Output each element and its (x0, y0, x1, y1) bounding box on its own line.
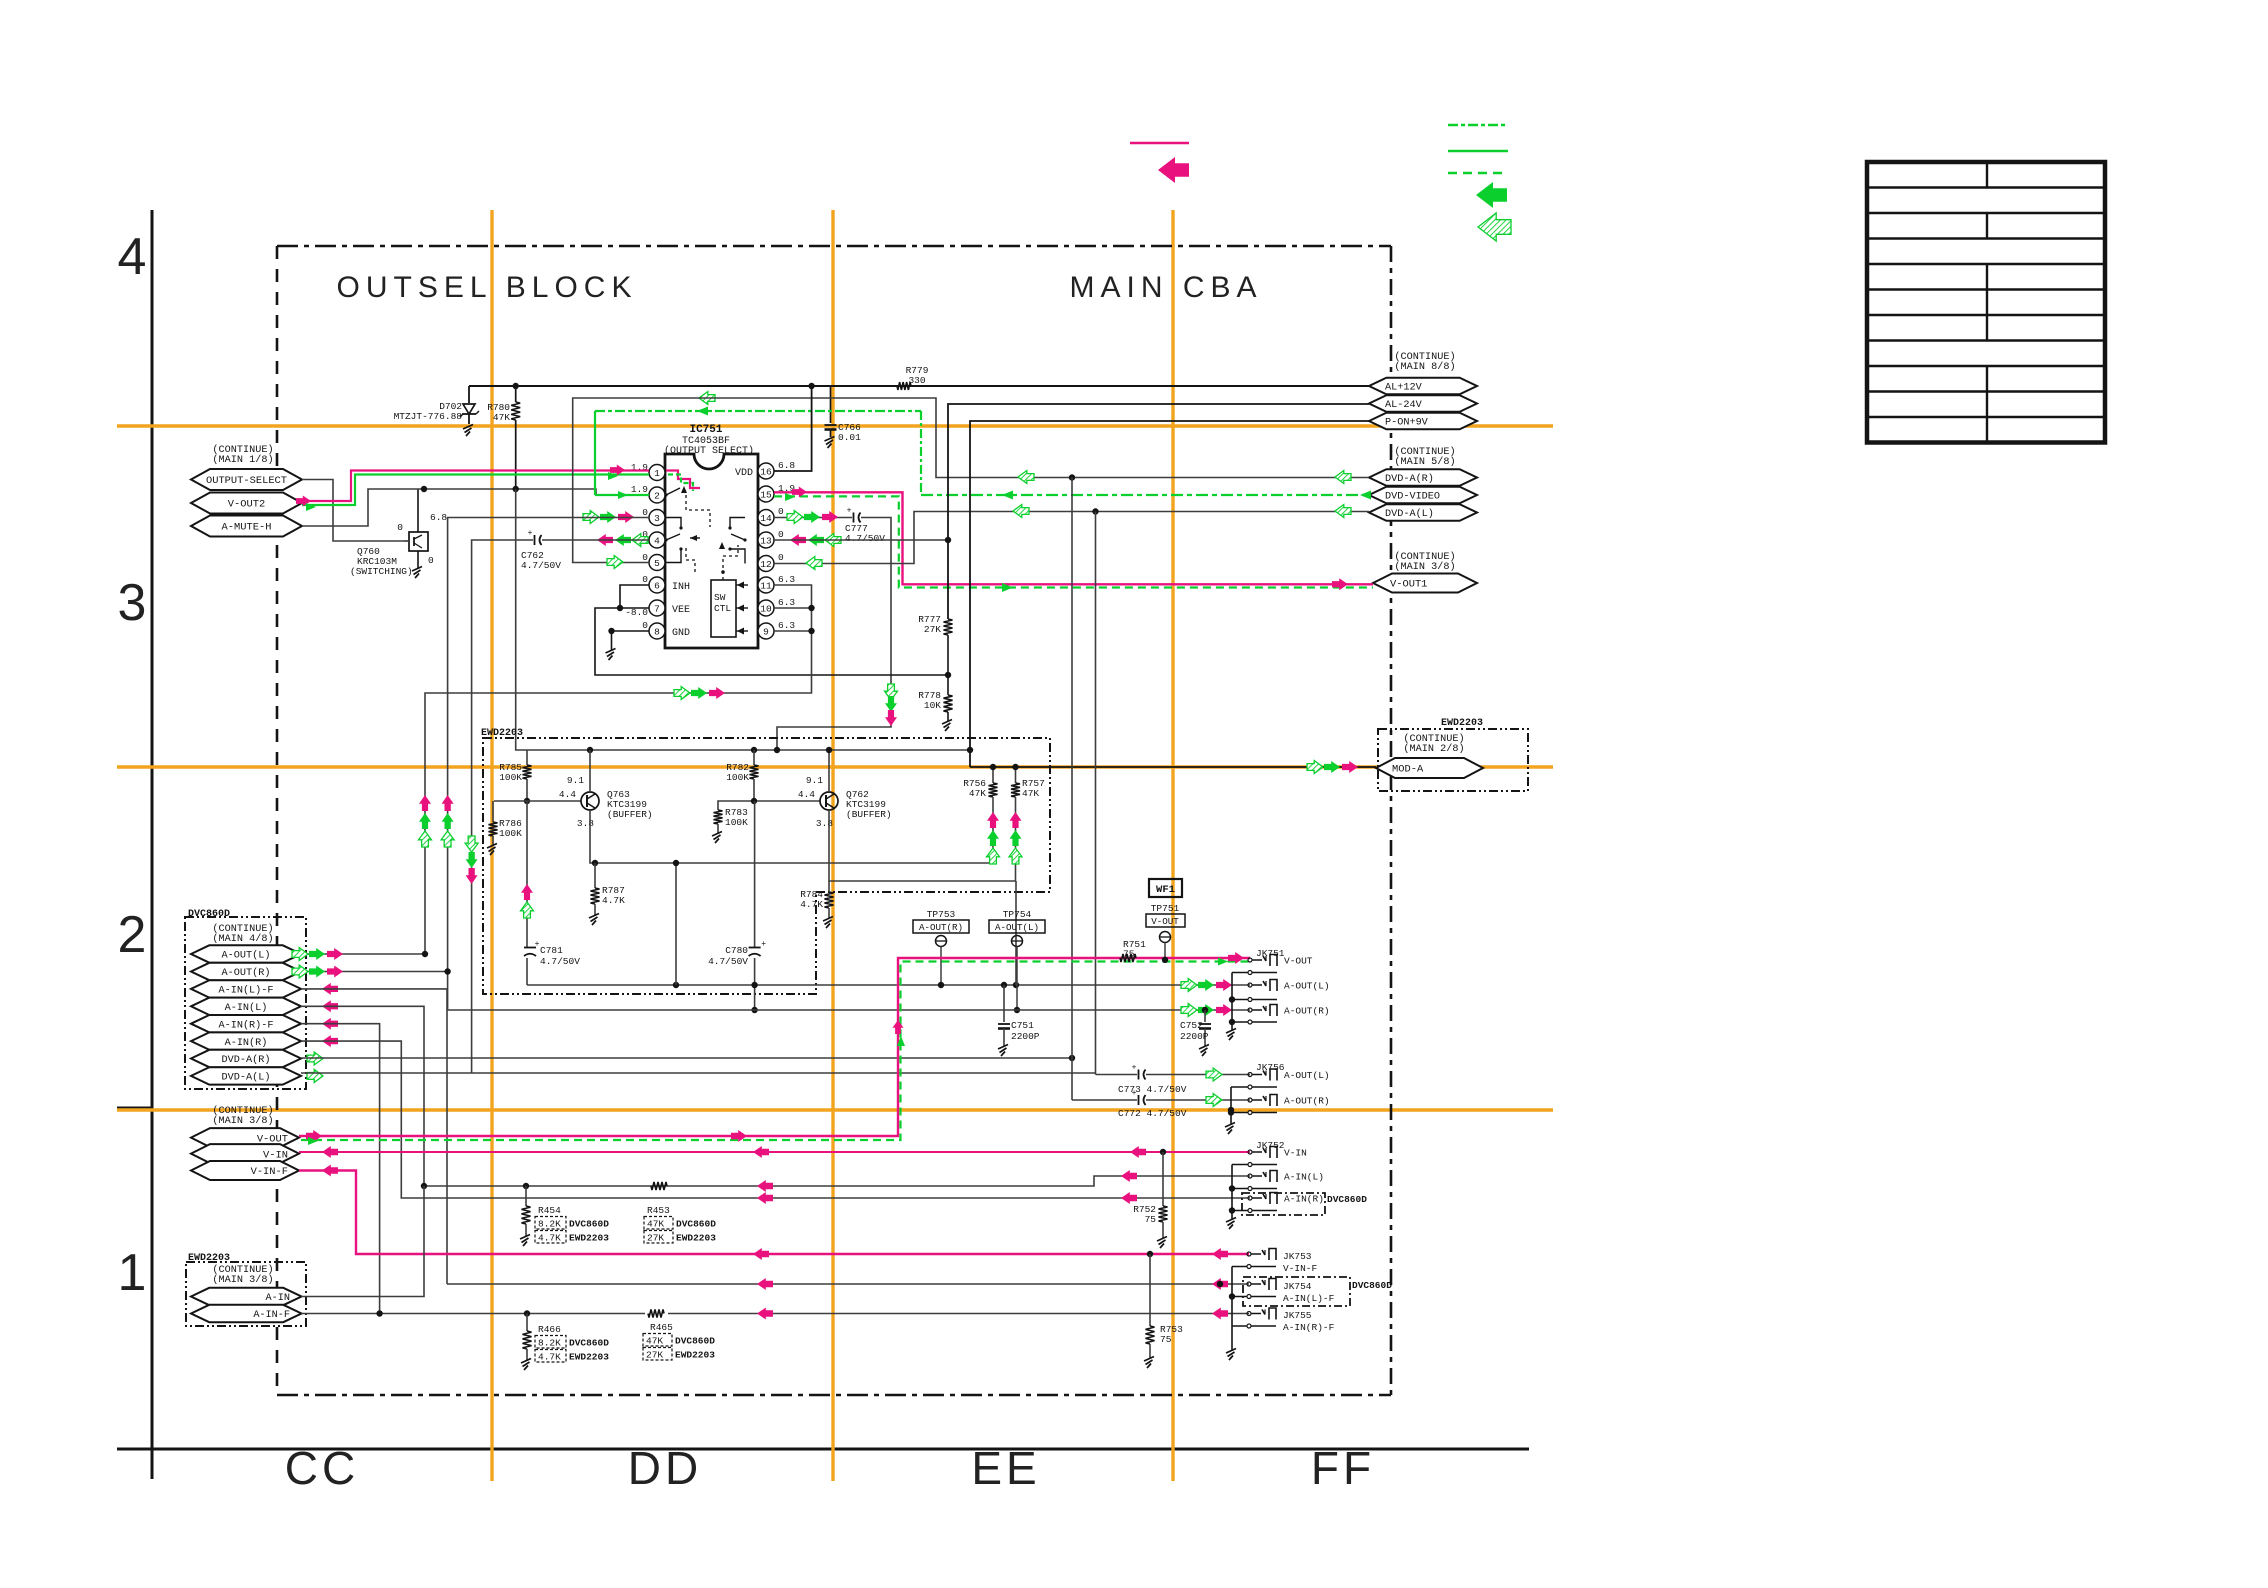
JK752 ground rail (1231, 1165, 1233, 1220)
svg-text:47K: 47K (969, 788, 986, 799)
wire V-OUT pink (299, 958, 1250, 1136)
svg-text:C781: C781 (540, 945, 563, 956)
svg-text:MAIN CBA: MAIN CBA (1069, 271, 1262, 304)
svg-text:47K: 47K (1022, 788, 1039, 799)
node Q760 collector on net (421, 486, 427, 492)
connector hexagon AL-24V (1369, 395, 1477, 412)
svg-text:+: + (761, 940, 766, 949)
svg-text:MTZJT-776.88: MTZJT-776.88 (394, 411, 463, 422)
wire MOD-A from buffers (970, 766, 1376, 768)
svg-text:27K: 27K (924, 624, 941, 635)
resistor R783 100K (714, 810, 723, 824)
connector hexagon OUTPUT-SELECT (191, 469, 302, 490)
svg-text:(MAIN 1/8): (MAIN 1/8) (212, 454, 273, 466)
wire JK756 A-OUT(R) line (1072, 1099, 1137, 1101)
green arrow on V-OUT1 green line (1002, 583, 1013, 592)
svg-text:(MAIN 5/8): (MAIN 5/8) (1394, 456, 1455, 468)
svg-text:(MAIN 3/8): (MAIN 3/8) (1394, 561, 1455, 573)
ground below R786 (487, 844, 497, 849)
svg-text:6: 6 (654, 580, 660, 591)
resistor R453 inline (651, 1182, 667, 1190)
svg-text:330: 330 (908, 375, 925, 386)
pink arrow after pin15 (792, 487, 807, 498)
TP754 test point circle (1012, 936, 1023, 947)
wire Q762 collector (828, 750, 830, 792)
IC751 pin 2 circle (649, 487, 665, 503)
svg-text:2: 2 (118, 906, 147, 964)
IC751 pin 6 circle (649, 577, 665, 593)
green arrowhead on dash-dot top line (697, 407, 708, 416)
wire pin15 pink to corner (774, 492, 1373, 584)
svg-text:8.2K: 8.2K (538, 1338, 561, 1349)
node rail x676 (673, 982, 679, 988)
svg-text:+: + (1132, 1064, 1137, 1073)
arrows before MOD-A hexagon (1342, 761, 1358, 773)
svg-text:TP751: TP751 (1151, 903, 1180, 914)
TP751 test point circle (1160, 932, 1171, 943)
wire P-ON+9V (970, 421, 1369, 767)
OUTSEL BLOCK border top edge (277, 245, 1391, 248)
svg-text:V-IN: V-IN (263, 1149, 288, 1161)
svg-text:A-IN(R)-F: A-IN(R)-F (218, 1019, 273, 1031)
DVC860D dashed box around JK752 A-IN(R) (1242, 1193, 1325, 1215)
node DVD-A(R) / JK756 riser (1069, 474, 1075, 480)
connector hexagon A-IN-F (191, 1305, 302, 1322)
wire pin11 to riser (425, 585, 812, 954)
node rail R782 (751, 747, 757, 753)
svg-text:9: 9 (763, 626, 769, 637)
green arrow before pin1 (608, 472, 618, 480)
svg-text:TP754: TP754 (1003, 909, 1032, 920)
wire pin5 loop over IC to DVD-A(R) (573, 398, 1369, 563)
legend green dash-dot line (1448, 124, 1508, 127)
wire AL-24V (948, 404, 1369, 619)
jack JK751 V-OUT (1248, 958, 1252, 962)
diode D702 with wire (468, 386, 470, 403)
wire A-MUTE-H to pullup net (302, 489, 424, 526)
svg-text:+: + (847, 507, 852, 516)
node R757 top (1012, 764, 1018, 770)
arrows at A-OUT(L) hexagon (327, 948, 343, 960)
green hollow arrow at DVD-A(R) hexagon (307, 1052, 323, 1065)
jack JK754 ground pin (1247, 1295, 1251, 1299)
pink arrow at A-IN(L) hexagon (322, 1000, 338, 1012)
svg-text:(BUFFER): (BUFFER) (846, 809, 892, 820)
wire pin3 riser to A-OUT(R) line (448, 518, 649, 972)
connector hexagon A-IN(R) (left) (191, 1032, 301, 1049)
pink arrows on A-IN(L)-F line (757, 1278, 773, 1290)
green arrowhead on DVD-VIDEO line left (1002, 491, 1013, 500)
svg-text:75: 75 (1145, 1214, 1157, 1225)
op-amp U1 IC751 body (665, 454, 758, 648)
svg-text:V-IN-F: V-IN-F (1283, 1263, 1318, 1274)
green arrowhead at DVD-VIDEO hexagon (1360, 491, 1371, 500)
wire pin15 green dashed to corner (774, 496, 1373, 587)
svg-text:DVC860D: DVC860D (1327, 1194, 1367, 1205)
svg-text:27K: 27K (646, 1350, 663, 1361)
pink arrow mid V-OUT line (731, 1130, 747, 1142)
svg-text:0: 0 (642, 507, 648, 518)
jack JK752 A-IN(R) ground pin (1248, 1209, 1252, 1213)
resistor R466 8.2K vertical (526, 1314, 528, 1332)
green hatched arrow DVD-A(L) at hexagon (1335, 505, 1351, 518)
pink arrow before pin1 (610, 465, 625, 476)
connector hexagon MOD-A (1376, 758, 1483, 778)
green hatched arrow DVD-A(R) at hexagon (1335, 471, 1351, 484)
wire A-IN riser (302, 1186, 425, 1297)
svg-text:A-OUT(R): A-OUT(R) (919, 922, 963, 933)
legend green hatched arrow (1478, 213, 1511, 241)
wire A-OUT(R) to JK751 (301, 972, 1250, 1011)
transistor Q1 Q763 KTC3199 (581, 792, 599, 810)
green hollow arrow at DVD-A(L) hexagon (307, 1069, 323, 1082)
wire A-IN(L) line (424, 1176, 1250, 1186)
connector hexagon A-IN (191, 1288, 302, 1305)
svg-text:A-IN(L)-F: A-IN(L)-F (218, 985, 273, 997)
ground JK752 (1226, 1218, 1236, 1223)
connector hexagon V-OUT (left) (191, 1128, 299, 1147)
green arrow at V-OUT hexagon (308, 1137, 318, 1145)
arrows on pin13 wire (790, 534, 806, 546)
JK756 ground rail (1230, 1087, 1232, 1124)
arrows on pin4 wire (597, 534, 613, 546)
pink arrow at A-IN(R) hexagon (322, 1035, 338, 1047)
capacitor C781 4.7/50V (526, 801, 528, 947)
jack JK752 V-IN (1248, 1150, 1252, 1154)
wire pin8 GND (612, 630, 650, 632)
wire OUTPUT-SELECT to Q760 base (302, 480, 409, 542)
IC751 SW CTL box (711, 580, 736, 637)
connector hexagon AL+12V (1369, 378, 1477, 395)
jack JK751 A-OUT(L) (1248, 983, 1252, 987)
svg-text:4.7/50V: 4.7/50V (521, 560, 561, 571)
pink arrow on V-OUT1 line (1332, 578, 1348, 590)
orange grid horizontal line 1 (117, 424, 1553, 427)
svg-text:A-IN(L)-F: A-IN(L)-F (1283, 1293, 1335, 1304)
resistor R787 4.7K (592, 860, 598, 866)
EWD bottom rail / JK751 A-OUT(L) line (527, 984, 1250, 986)
svg-text:A-OUT(L): A-OUT(L) (995, 922, 1039, 933)
resistor R785 100K (526, 750, 528, 765)
wire pin6 INH (620, 585, 649, 608)
svg-text:47K: 47K (493, 412, 510, 423)
svg-text:1: 1 (654, 468, 660, 479)
pink arrow at V-OUT hexagon (306, 1130, 322, 1142)
ground below R752 (1157, 1237, 1167, 1242)
connector hexagon P-ON+9V (1369, 413, 1477, 430)
svg-text:0: 0 (428, 555, 434, 566)
svg-text:V-OUT: V-OUT (1151, 916, 1179, 927)
wire V-OUT2 green to pin1 (302, 475, 649, 506)
svg-text:(MAIN 8/8): (MAIN 8/8) (1394, 361, 1455, 373)
svg-text:0: 0 (642, 552, 648, 563)
wire A-IN(R)-F riser (301, 1024, 380, 1314)
JK751 ground rail (1231, 973, 1233, 1031)
wire base node Q763 (494, 800, 581, 802)
arrows under R757 (1010, 812, 1022, 828)
wire pin13 to AL-24V riser (774, 539, 948, 541)
svg-text:DVD-A(R): DVD-A(R) (222, 1054, 271, 1066)
svg-text:CTL: CTL (714, 603, 731, 614)
resistor R778 10K (944, 695, 953, 712)
wire pin12 to DVD-A(L) (774, 512, 1369, 564)
IC751 pin 15 circle (758, 486, 774, 502)
jack JK756 A-OUT(R) ground pin (1248, 1111, 1252, 1115)
svg-text:C772 4.7/50V: C772 4.7/50V (1118, 1108, 1187, 1119)
arrows on pin14 wire (822, 511, 838, 523)
wire pullup net to pin2 branch (424, 489, 649, 495)
legend pink line (1130, 142, 1189, 144)
green hatched arrow above dash-dot line (699, 392, 715, 405)
svg-text:4.7K: 4.7K (602, 895, 625, 906)
svg-text:(SWITCHING): (SWITCHING) (350, 566, 413, 577)
green hatched arrow pin12 near IC (806, 557, 822, 570)
resistor R780 47K (515, 386, 517, 402)
svg-text:A-OUT(R): A-OUT(R) (1284, 1006, 1330, 1017)
svg-text:DVD-VIDEO: DVD-VIDEO (1385, 492, 1440, 503)
svg-text:11: 11 (760, 580, 772, 591)
svg-text:6.3: 6.3 (778, 620, 795, 631)
legend green solid line (1448, 150, 1508, 153)
ground below R784 (823, 917, 833, 922)
node R756 top (990, 764, 996, 770)
connector hexagon A-MUTE-H (191, 516, 302, 537)
svg-text:12: 12 (760, 559, 772, 570)
svg-text:WF1: WF1 (1156, 884, 1175, 896)
svg-text:JK755: JK755 (1283, 1310, 1312, 1321)
wire V-IN-F pink (299, 1171, 1249, 1255)
jack JK752 A-IN(L) ground pin (1248, 1187, 1252, 1191)
IC751 pin 4 circle (649, 532, 665, 548)
wire JK756 riser from DVD-A(L) top net (1095, 512, 1097, 1075)
pink arrow before JK751 V-OUT (1228, 952, 1244, 964)
svg-text:2200P: 2200P (1011, 1031, 1040, 1042)
wire pin14 through C777 (774, 517, 852, 519)
jack JK753 ground pin (1247, 1265, 1251, 1269)
node rail-pin16 vdd (808, 383, 814, 389)
green arrowhead before JK751 V-OUT (1218, 958, 1228, 966)
IC751 internal dashed control lines (686, 495, 710, 527)
wire Q763 emitter rail (590, 810, 993, 863)
svg-text:A-IN(R): A-IN(R) (225, 1037, 268, 1049)
svg-text:SW: SW (714, 592, 726, 603)
wire A-IN(R) riser (301, 1041, 1250, 1198)
resistor R454 8.2K vertical (525, 1186, 527, 1206)
svg-text:+: + (535, 940, 540, 949)
node R753 tap (1147, 1251, 1153, 1257)
wire V-OUT2 pink to pin1 (302, 471, 649, 502)
svg-text:DD: DD (628, 1442, 702, 1494)
OUTSEL BLOCK border bottom edge (277, 1394, 1391, 1397)
node rail R757 riser (1013, 982, 1019, 988)
svg-text:3.8: 3.8 (577, 818, 594, 829)
IC751 pin 9 circle (758, 623, 774, 639)
svg-text:A-IN(L): A-IN(L) (225, 1002, 268, 1014)
connector hexagon V-IN (left) (191, 1144, 299, 1163)
resistor R784 4.7K (828, 854, 830, 856)
svg-text:DVC860D: DVC860D (569, 1219, 609, 1230)
pink arrows on V-IN-F (322, 1165, 338, 1177)
svg-text:DVD-A(L): DVD-A(L) (222, 1072, 271, 1084)
connector hexagon A-OUT(L) (left) (191, 945, 301, 962)
DVC860D dash-dot box (185, 917, 306, 1089)
svg-text:AL+12V: AL+12V (1385, 383, 1423, 394)
jack JK756 A-OUT(L) (1248, 1073, 1252, 1077)
svg-text:INH: INH (672, 582, 690, 593)
connector hexagon DVD-A(L) (right) (1369, 504, 1477, 521)
grid frame bottom horizontal line (117, 1448, 1529, 1451)
svg-text:(MAIN 2/8): (MAIN 2/8) (1403, 743, 1464, 755)
node DVD-A(L) / JK756 riser (1092, 508, 1098, 514)
jack JK751 A-OUT(R) ground pin (1248, 1020, 1252, 1024)
svg-text:8.2K: 8.2K (538, 1219, 561, 1230)
green vertical from dash-dot line to pin2 wire (594, 411, 596, 495)
connector hexagon DVD-VIDEO (right) (1369, 487, 1477, 504)
svg-text:(MAIN 4/8): (MAIN 4/8) (212, 933, 273, 945)
connector hexagon A-OUT(R) (left) (191, 963, 301, 980)
jack JK756 A-OUT(R) (1248, 1098, 1252, 1102)
green hatched arrow JK756 A-OUT(L) (1206, 1068, 1222, 1081)
resistor R753 75 (1149, 1254, 1151, 1326)
node JK754 gnd tap (1217, 1281, 1223, 1287)
capacitor C766 0.01 (830, 386, 832, 423)
svg-text:DVC860D: DVC860D (569, 1338, 609, 1349)
transistor Q3 Q762 KTC3199 (820, 792, 838, 810)
legend green solid arrow (1476, 182, 1507, 208)
svg-text:7: 7 (654, 603, 660, 614)
ground below D702 (463, 425, 473, 430)
wire A-IN(L)-F line (447, 1283, 1249, 1285)
resistor R465 inline (648, 1310, 664, 1318)
wire V-IN pink line (299, 1151, 1250, 1153)
svg-text:(MAIN 3/8): (MAIN 3/8) (212, 1115, 273, 1127)
capacitor C780 4.7/50V (754, 801, 756, 947)
svg-text:1.9: 1.9 (631, 484, 648, 495)
svg-text:75: 75 (1123, 949, 1135, 960)
wire A-IN(L) riser (301, 1006, 424, 1186)
svg-text:4.7/50V: 4.7/50V (708, 956, 748, 967)
IC751 internal switch symbols (666, 471, 700, 489)
pink arrows on A-IN(R) line (757, 1192, 773, 1204)
ground below R783 (712, 832, 722, 837)
wire pin10 to riser (774, 607, 812, 609)
transistor Q2 Q760 box (409, 532, 428, 551)
svg-text:VDD: VDD (735, 468, 753, 479)
svg-text:4.7/50V: 4.7/50V (845, 533, 885, 544)
svg-text:3: 3 (118, 574, 147, 632)
ground JK751 (1226, 1029, 1236, 1034)
node R466 tap (524, 1310, 530, 1316)
node rail Q763 collector (587, 747, 593, 753)
resistor R777 27K (944, 619, 953, 635)
svg-text:13: 13 (760, 535, 772, 546)
svg-text:A-IN(R)-F: A-IN(R)-F (1283, 1322, 1335, 1333)
connector hexagon DVD-A(R) (right) (1369, 469, 1477, 486)
arrows before JK751 A-OUT(L) (1216, 979, 1232, 991)
svg-text:JK754: JK754 (1283, 1281, 1312, 1292)
jack JK751 A-OUT(L) ground pin (1248, 998, 1252, 1002)
grid tick row 4/3 (117, 425, 152, 428)
svg-text:OUTPUT-SELECT: OUTPUT-SELECT (206, 475, 287, 487)
EWD2203 dash-dot box (MOD-A) (1378, 729, 1528, 791)
IC751 pin 8 circle (649, 623, 665, 639)
jack JK752 A-IN(R) (1248, 1196, 1252, 1200)
pink up arrow on V-OUT riser (893, 1020, 904, 1034)
connector hexagon V-IN-F (left) (191, 1161, 299, 1180)
revision table (1867, 162, 2105, 443)
svg-text:P-ON+9V: P-ON+9V (1385, 418, 1429, 429)
green up arrow on V-OUT riser (897, 1036, 905, 1046)
TP753 test point circle (936, 936, 947, 947)
svg-text:V-OUT1: V-OUT1 (1390, 579, 1427, 591)
pink arrow at A-IN(L)-F hexagon (322, 983, 338, 995)
resistor R751 75 inline (1120, 954, 1136, 962)
node A-IN(L) riser (421, 1183, 427, 1189)
svg-text:0.01: 0.01 (838, 432, 861, 443)
resistor R779 330 (inline top rail) (897, 382, 911, 390)
IC751 pin 3 circle (649, 510, 665, 526)
wire EWD top rail (527, 749, 970, 751)
node R454 tap (523, 1183, 529, 1189)
pink arrows on V-IN (322, 1146, 338, 1158)
ground at pin8 (606, 649, 616, 654)
svg-text:DVD-A(R): DVD-A(R) (1385, 473, 1434, 485)
jack JK755 ground pin (1247, 1324, 1251, 1328)
svg-text:A-IN-F: A-IN-F (253, 1310, 290, 1321)
svg-text:C773 4.7/50V: C773 4.7/50V (1118, 1084, 1187, 1095)
svg-text:4.7/50V: 4.7/50V (540, 956, 580, 967)
IC751 pin 5 circle (649, 555, 665, 571)
svg-text:(BUFFER): (BUFFER) (607, 809, 653, 820)
EWD2203 dash-dot outline (buffer block) (483, 738, 1050, 994)
IC751 pin 10 circle (758, 600, 774, 616)
capacitor C777 4.7/50V (853, 513, 855, 523)
svg-text:9.1: 9.1 (806, 775, 823, 786)
wire base wire Q762 (718, 801, 820, 810)
wire pin7 VEE rail (595, 608, 948, 675)
ground below R753 (1144, 1357, 1154, 1362)
svg-text:JK753: JK753 (1283, 1251, 1312, 1262)
green hatched arrow DVD-A(R) left (1018, 471, 1034, 484)
ground at Q760 (412, 567, 422, 572)
pink arrows on A-IN(R)-F line (757, 1308, 773, 1320)
svg-text:6.3: 6.3 (778, 597, 795, 608)
svg-text:14: 14 (760, 513, 772, 524)
svg-text:3.8: 3.8 (816, 818, 833, 829)
green dash-dot wire to DVD-VIDEO hexagon (921, 494, 1369, 496)
green hatched arrow on pin12 wire (1013, 505, 1029, 518)
svg-text:4.4: 4.4 (559, 789, 576, 800)
wire R780 branch down to EWD rail (516, 489, 527, 750)
svg-text:4.4: 4.4 (798, 789, 815, 800)
orange grid horizontal line 3 (117, 1108, 1553, 1111)
svg-text:FF: FF (1311, 1442, 1375, 1494)
arrows on pin3 wire (618, 511, 634, 523)
wire A-IN(R)-F line (302, 1313, 646, 1315)
wire Q763 collector (589, 750, 591, 792)
wire V-OUT green dashed (301, 962, 1250, 1141)
arrows on C777 riser x891 (885, 684, 898, 700)
svg-text:6.8: 6.8 (430, 512, 447, 523)
svg-text:0: 0 (778, 529, 784, 540)
svg-text:100K: 100K (499, 828, 522, 839)
svg-text:V-IN: V-IN (1284, 1148, 1307, 1159)
IC751 SW CTL input arrows (736, 584, 748, 586)
wire DVD-A(R) long line (301, 1057, 1072, 1059)
svg-text:4.7K: 4.7K (800, 899, 823, 910)
resistor R782 100K (753, 750, 755, 765)
IC751 pin 7 circle (649, 600, 665, 616)
